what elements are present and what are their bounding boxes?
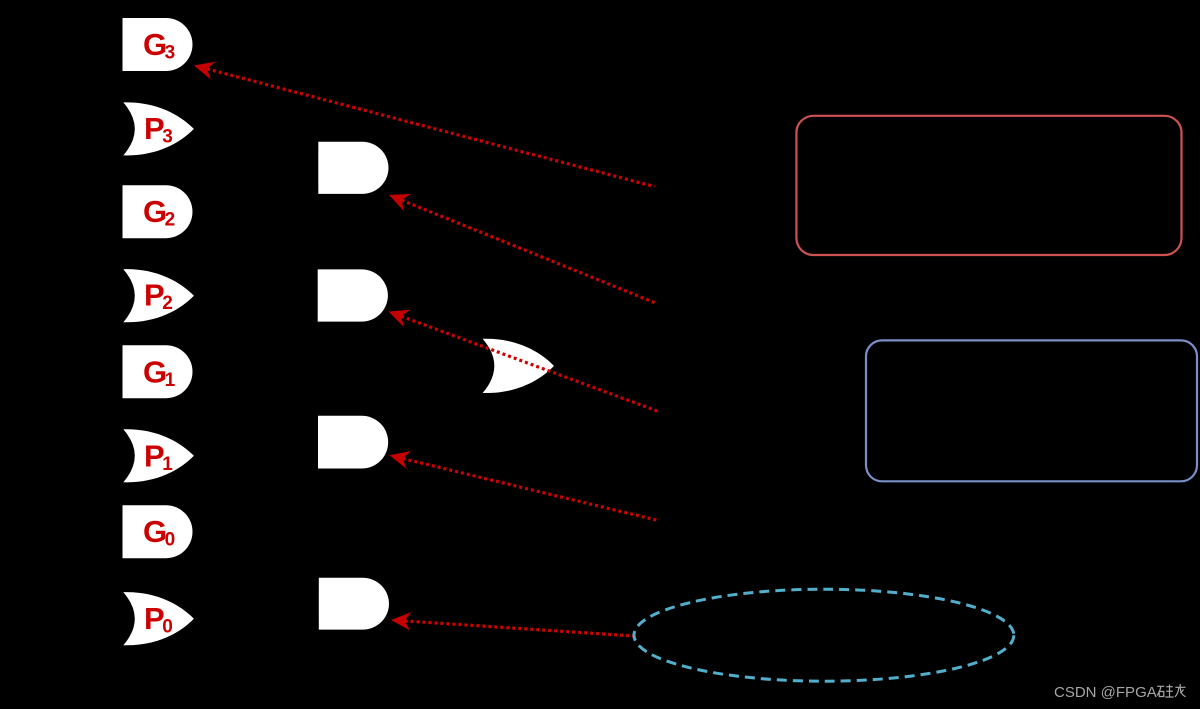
OR gate U5 (middle)	[483, 339, 554, 393]
AND gate U2 (middle row 2)	[318, 269, 388, 321]
AND gate G1	[123, 345, 193, 398]
arrow A5 (dotted, from ellipse to U4 output)	[390, 611, 634, 636]
arrow A2 (dotted, to U1 output)	[386, 186, 657, 303]
AND gate G0	[123, 505, 193, 558]
arrow A3 (dotted, to U2 output, crossing U5)	[385, 303, 658, 412]
annotation box B1 (red rounded rectangle)	[796, 116, 1181, 255]
AND gate U1 (middle row 1)	[318, 142, 388, 194]
annotation ellipse E1 (cyan dashed)	[634, 589, 1014, 681]
AND gate G3	[123, 18, 193, 71]
OR gate P1	[123, 429, 194, 482]
annotation box B2 (blue rounded rectangle)	[866, 340, 1197, 481]
AND gate G2	[123, 185, 193, 238]
AND gate U3 (middle row 3)	[318, 416, 388, 469]
arrow A4 (dotted, to U3 output)	[387, 446, 659, 521]
watermark glyph 硅	[1157, 685, 1174, 698]
watermark glyph 农	[1175, 684, 1186, 697]
OR gate P0	[123, 592, 194, 645]
OR gate P2	[123, 269, 194, 322]
OR gate P3	[123, 102, 194, 155]
arrow A1 (dotted, to G3 output)	[192, 57, 655, 187]
svg-text:CSDN @FPGA: CSDN @FPGA	[1054, 684, 1157, 701]
AND gate U4 (middle row 4)	[319, 578, 389, 630]
